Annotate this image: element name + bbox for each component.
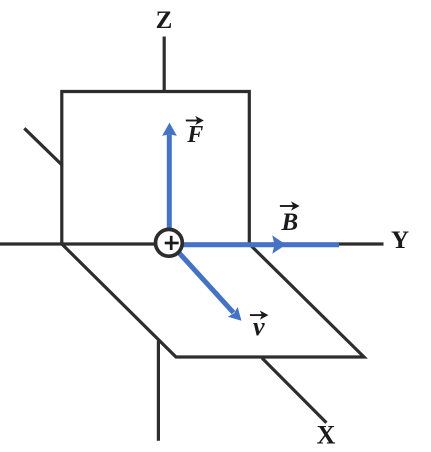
svg-text:Z: Z <box>156 7 173 34</box>
svg-text:Y: Y <box>391 227 409 254</box>
svg-text:F: F <box>186 122 203 148</box>
svg-text:B: B <box>281 209 299 236</box>
svg-text:X: X <box>317 421 336 450</box>
